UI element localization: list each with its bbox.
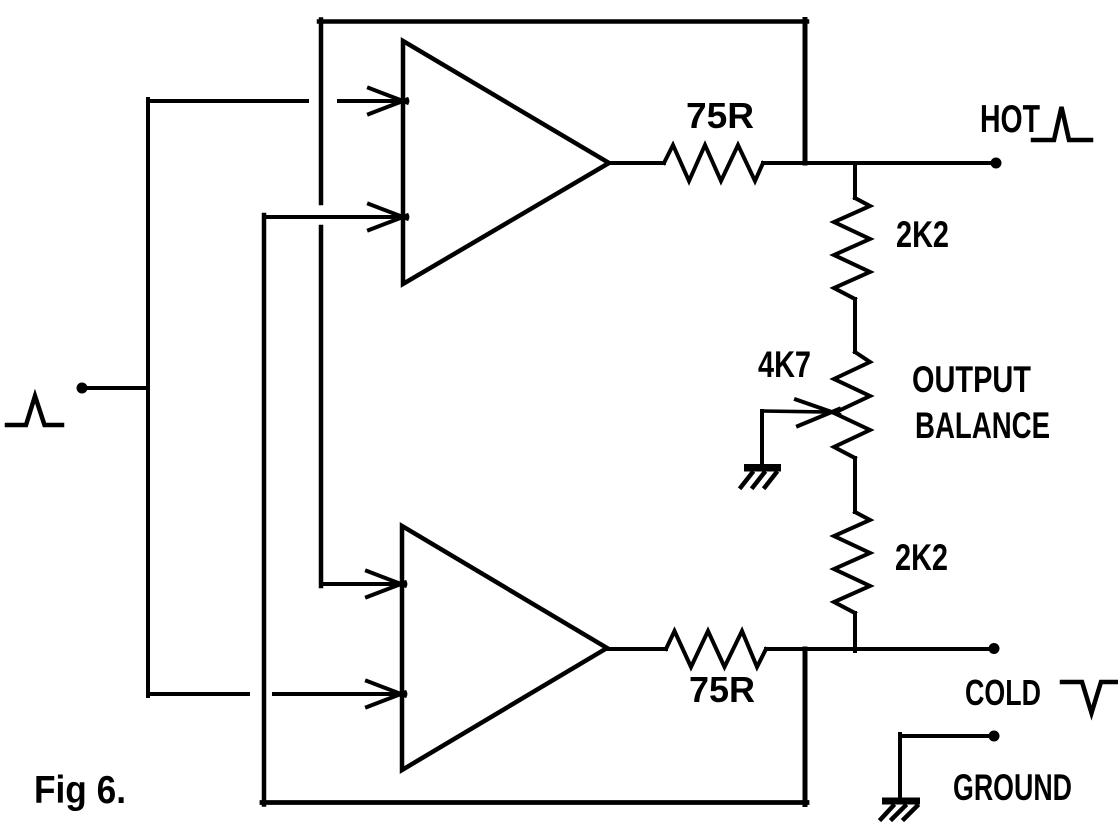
- wire: wiper to ground: [760, 411, 764, 466]
- svg-text:HOT: HOT: [980, 98, 1040, 141]
- wire: A2 output to 75R: [607, 647, 666, 651]
- svg-text:2K2: 2K2: [895, 537, 948, 578]
- wire: lower amp lower input (right of crossover): [274, 692, 398, 696]
- svg-text:OUTPUT: OUTPUT: [912, 359, 1031, 400]
- svg-text:2K2: 2K2: [896, 214, 949, 255]
- wire: feedback vertical x=321 upper part: [319, 20, 324, 204]
- wire: bottom output line: [766, 647, 990, 651]
- wire: A1 output to 75R: [609, 161, 664, 165]
- wire: 4K7 to lower 2K2: [853, 458, 857, 512]
- wire: lower 2K2 to bottom output line: [853, 613, 857, 651]
- COLD pulse waveform symbol (inverted): [1062, 682, 1116, 713]
- svg-text:BALANCE: BALANCE: [915, 405, 1050, 446]
- wire: top feedback vertical x=805: [803, 20, 808, 164]
- arrow into lower amp lower input: [367, 681, 405, 707]
- resistor 75R (top): [664, 145, 763, 181]
- svg-text:75R: 75R: [686, 96, 754, 136]
- op-amp A1 (top buffer): [403, 41, 609, 284]
- wire: input stub: [86, 386, 148, 390]
- resistor 2K2 (upper): [834, 198, 870, 299]
- input pulse waveform symbol: [7, 396, 62, 425]
- wire: top output line: [763, 161, 992, 165]
- wire: top output to 2K2 chain stub: [853, 163, 857, 198]
- wire: top feedback horizontal y=20: [319, 19, 807, 24]
- ground (pot wiper): [741, 464, 781, 487]
- arrow into top amp lower input: [369, 204, 407, 230]
- wire: input bus vertical: [146, 99, 150, 696]
- wire: 2K2 to 4K7: [853, 299, 857, 352]
- node: signal input terminal: [77, 383, 88, 394]
- wire: lower amp lower input (left of crossover): [148, 692, 248, 696]
- node: GROUND terminal: [989, 731, 1000, 742]
- svg-text:GROUND: GROUND: [953, 767, 1072, 808]
- svg-text:COLD: COLD: [965, 673, 1041, 713]
- resistor 2K2 (lower): [834, 512, 870, 613]
- wire: cross-feedback vertical x=264: [262, 215, 267, 805]
- wire: ground drop vertical: [898, 734, 902, 798]
- wire: lower amp upper input: [321, 582, 398, 586]
- potentiometer wiper arrow: [796, 400, 839, 427]
- wire: feedback vertical x=321 lower part: [319, 227, 324, 586]
- node: COLD output terminal: [989, 643, 1000, 654]
- op-amp A2 (bottom buffer): [402, 526, 607, 770]
- svg-text:75R: 75R: [689, 670, 755, 710]
- potentiometer 4K7 (element body): [834, 352, 870, 458]
- wire: top amp upper input (left of crossover): [148, 99, 307, 103]
- wire: ground terminal horizontal: [900, 734, 990, 738]
- svg-text:Fig 6.: Fig 6.: [34, 769, 126, 812]
- arrow into top amp upper input: [369, 88, 407, 114]
- node: HOT output terminal: [991, 158, 1002, 169]
- wire: top amp lower input horizontal: [264, 215, 400, 219]
- HOT pulse waveform symbol: [1033, 107, 1091, 140]
- ground (output common): [881, 798, 920, 820]
- wire: top amp upper input (right of crossover): [339, 99, 400, 103]
- resistor 75R (bottom): [666, 631, 766, 667]
- wire: bottom feedback horizontal: [262, 800, 807, 805]
- wire: wiper horizontal: [762, 411, 830, 412]
- wire: lower amp output to bottom feedback drop: [803, 649, 808, 805]
- arrow into lower amp upper input: [367, 571, 405, 597]
- svg-text:4K7: 4K7: [758, 344, 811, 385]
